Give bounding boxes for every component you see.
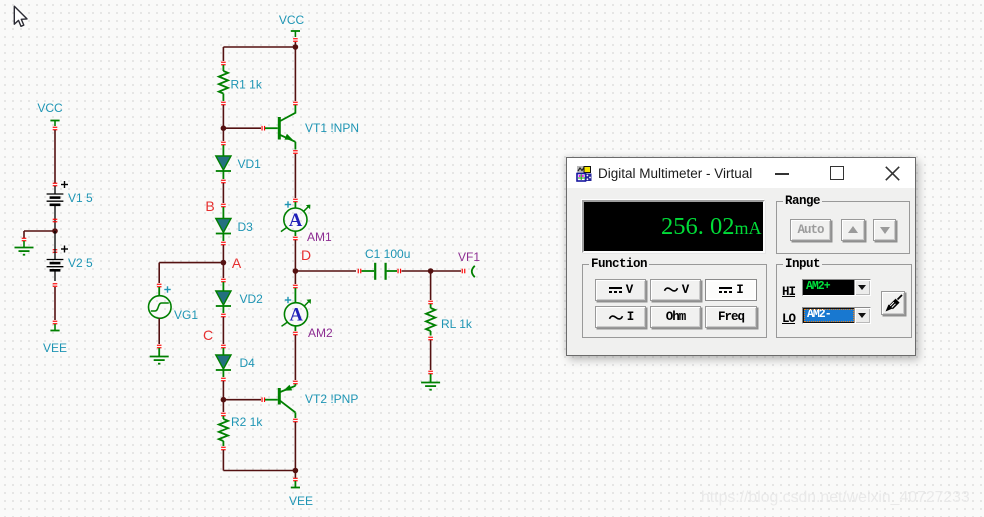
svg-text:D4: D4 — [240, 356, 256, 370]
svg-text:R1 1k: R1 1k — [231, 78, 263, 92]
svg-text:R2 1k: R2 1k — [231, 415, 263, 429]
svg-text:RL 1k: RL 1k — [441, 317, 473, 331]
svg-text:A: A — [289, 211, 303, 231]
svg-text:AM1: AM1 — [307, 230, 332, 244]
svg-text:V2 5: V2 5 — [68, 256, 93, 270]
svg-text:VCC: VCC — [279, 13, 305, 27]
svg-text:VG1: VG1 — [174, 308, 198, 322]
svg-text:VD2: VD2 — [240, 292, 264, 306]
svg-text:VF1: VF1 — [458, 250, 480, 264]
svg-text:VT2 !PNP: VT2 !PNP — [305, 392, 358, 406]
svg-text:VCC: VCC — [37, 101, 63, 115]
svg-text:VEE: VEE — [289, 494, 313, 508]
svg-text:VT1 !NPN: VT1 !NPN — [305, 121, 359, 135]
svg-text:VEE: VEE — [43, 341, 67, 355]
svg-text:D3: D3 — [238, 220, 254, 234]
svg-text:C1 100u: C1 100u — [365, 247, 410, 261]
svg-text:V1 5: V1 5 — [68, 191, 93, 205]
svg-text:VD1: VD1 — [238, 157, 262, 171]
svg-text:B: B — [205, 198, 214, 214]
svg-text:A: A — [232, 255, 242, 271]
svg-text:D: D — [301, 247, 311, 263]
svg-text:A: A — [290, 306, 304, 326]
svg-text:AM2: AM2 — [308, 326, 333, 340]
svg-text:C: C — [203, 327, 213, 343]
